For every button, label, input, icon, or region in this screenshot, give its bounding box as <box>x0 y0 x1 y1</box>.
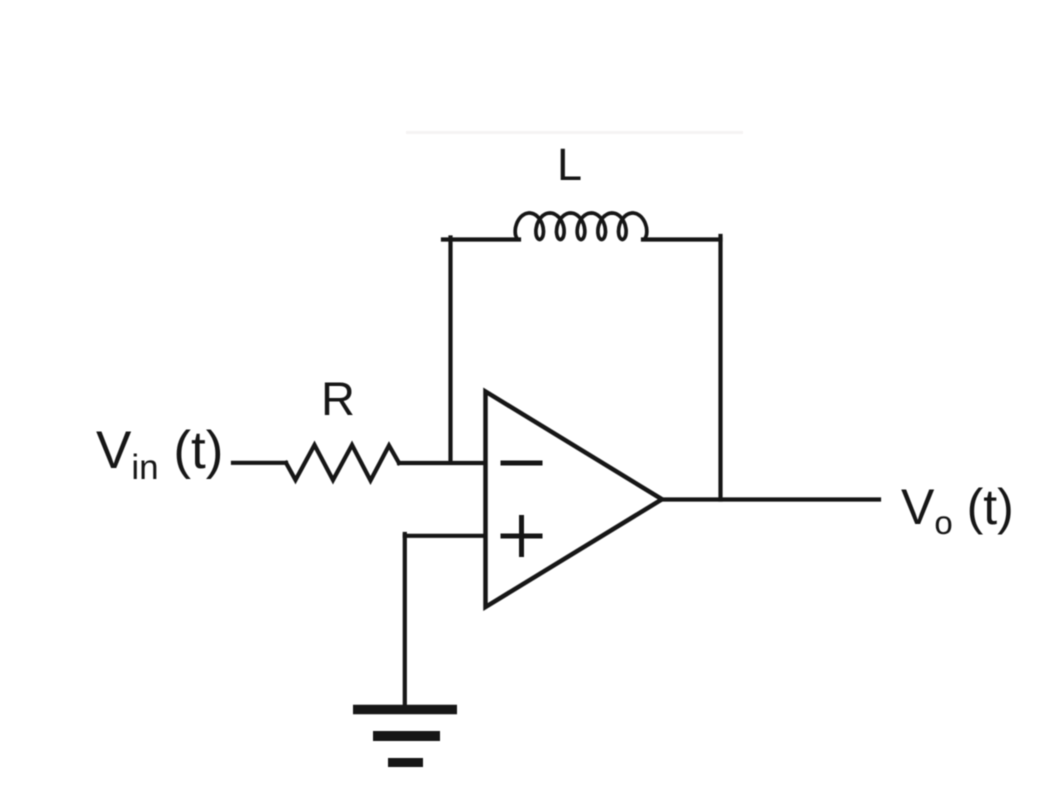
ground bar 1 <box>353 705 457 715</box>
wire: left feedback vertical (inductor to inverting input) <box>448 238 452 463</box>
svg-text:L: L <box>557 139 582 190</box>
wire: output lead <box>662 497 879 501</box>
ground bar 3 <box>388 758 423 767</box>
op-amp U1 triangle <box>486 392 663 608</box>
svg-text:Vo (t): Vo (t) <box>901 479 1014 541</box>
inductor L <box>515 213 647 240</box>
wire: ground vertical <box>403 534 407 707</box>
resistor R <box>286 445 399 481</box>
faint artifact band <box>406 131 743 134</box>
wire: inductor left lead <box>443 237 519 241</box>
wire: non-inverting input lead <box>405 534 484 538</box>
wire: resistor to inverting input <box>399 461 484 465</box>
svg-text:R: R <box>321 372 355 425</box>
wire: input lead from Vin <box>233 461 286 465</box>
ground bar 2 <box>373 731 440 741</box>
svg-text:Vin (t): Vin (t) <box>96 421 223 487</box>
wire: inductor right lead <box>643 237 721 241</box>
op-amp non-inverting input marker (plus) <box>503 518 540 555</box>
wire: right feedback vertical (inductor to output) <box>718 236 722 500</box>
op-amp inverting input marker (minus) <box>503 461 540 466</box>
